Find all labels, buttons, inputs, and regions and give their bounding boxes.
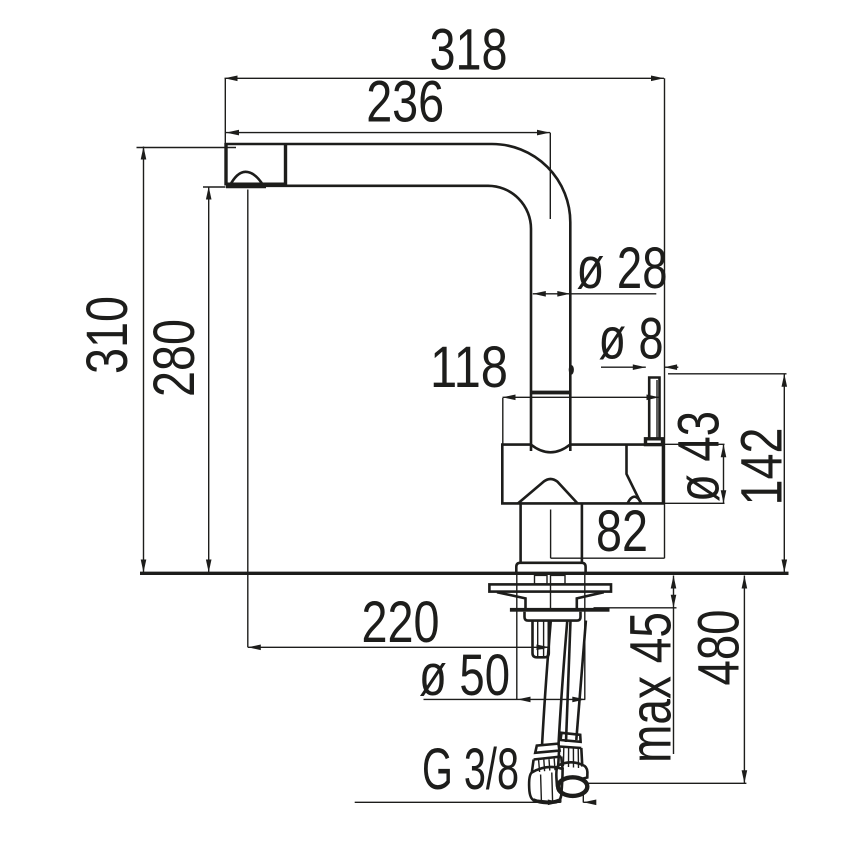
dimension 280 line xyxy=(206,187,212,573)
dimension 480 line xyxy=(742,576,748,784)
leader dot on pipe edge xyxy=(569,365,574,375)
body cone transition xyxy=(518,479,578,503)
280 top extension tick xyxy=(203,186,226,188)
318 left extension line xyxy=(224,78,226,143)
gasket bar (solid) xyxy=(510,608,610,612)
hose B crimp collar xyxy=(558,733,582,768)
svg-text:82: 82 xyxy=(596,499,648,564)
svg-text:G 3/8: G 3/8 xyxy=(422,737,519,802)
hose A nut xyxy=(529,767,562,803)
swivel joint ring xyxy=(530,391,571,395)
dimension o8 leaders xyxy=(601,364,678,370)
svg-text:ø 8: ø 8 xyxy=(599,307,664,372)
G3/8 extension ticks xyxy=(561,795,584,803)
column centreline stub xyxy=(550,510,552,559)
310 top extension tick xyxy=(137,147,237,149)
aerator dome xyxy=(226,172,266,187)
480 bottom extension tick xyxy=(586,782,746,784)
dimension 310 line xyxy=(141,147,147,573)
118 left extension line xyxy=(502,398,504,444)
max45 bottom extension tick xyxy=(594,607,677,609)
hose A crimp collar xyxy=(532,744,563,773)
82 bracket line xyxy=(551,557,665,559)
G3/8 dimension line xyxy=(355,800,597,806)
aerator centreline xyxy=(247,190,249,648)
spout end cap xyxy=(226,143,287,186)
svg-text:236: 236 xyxy=(366,70,444,135)
dimension 142 line xyxy=(782,374,788,573)
pin (o 8) xyxy=(646,378,663,445)
dimension 318 line xyxy=(225,76,665,82)
fixing nut xyxy=(525,612,581,621)
lever cap diagonal xyxy=(627,445,642,504)
o43 extension ticks xyxy=(665,444,725,503)
dimension o28 arrows and leader xyxy=(533,291,657,297)
dimension o43 line xyxy=(721,444,727,503)
hose feed line xyxy=(550,584,552,608)
svg-text:480: 480 xyxy=(687,610,752,686)
318 right extension line xyxy=(664,78,666,558)
spout horizontal tube with bend xyxy=(225,144,571,451)
hose A (front supply hose) xyxy=(542,621,567,747)
column xyxy=(521,503,582,563)
mounting tabs xyxy=(535,575,566,584)
hose B nut xyxy=(556,762,587,796)
236 right extension line xyxy=(549,133,551,219)
svg-text:280: 280 xyxy=(142,319,207,397)
dimension max45 line xyxy=(671,576,677,755)
svg-text:118: 118 xyxy=(430,335,508,400)
dimension o50 line xyxy=(424,697,586,703)
countertop line xyxy=(140,572,789,575)
142 top extension tick xyxy=(668,373,787,375)
mounting bracket xyxy=(497,592,604,608)
svg-text:ø 50: ø 50 xyxy=(419,643,510,708)
dimension 220 line xyxy=(248,645,550,651)
svg-text:310: 310 xyxy=(75,296,140,374)
hose B (rear supply hose) xyxy=(566,621,586,743)
dimension 118 line xyxy=(503,395,660,401)
threaded shank xyxy=(533,621,549,658)
faucet body xyxy=(502,445,663,504)
horseshoe plate xyxy=(489,584,611,591)
base collar xyxy=(516,563,585,573)
svg-text:ø 28: ø 28 xyxy=(577,236,668,301)
dimension 236 line xyxy=(226,130,550,136)
o50 extension lines xyxy=(517,575,585,699)
